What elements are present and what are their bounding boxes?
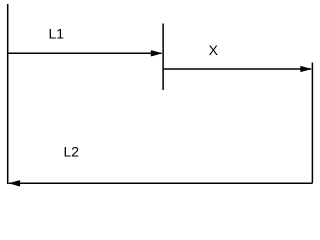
arrowhead X: [300, 66, 312, 72]
dimension line X: [163, 68, 311, 70]
svg-text:L1: L1: [49, 25, 65, 41]
left extension line: [7, 4, 9, 184]
arrowhead L1: [151, 50, 163, 56]
dimension line L2: [9, 182, 313, 184]
svg-text:L2: L2: [64, 143, 80, 159]
arrowhead L2: [9, 180, 21, 186]
right extension line: [311, 63, 313, 184]
svg-text:X: X: [209, 42, 219, 58]
dimension line L1: [8, 52, 162, 54]
middle extension line: [162, 24, 164, 91]
